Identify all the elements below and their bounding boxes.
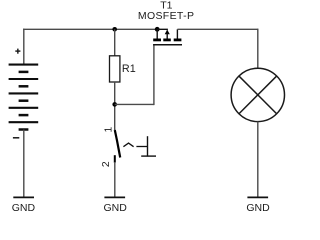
svg-text:GND: GND bbox=[246, 202, 270, 213]
wire R1 bottom to switch bbox=[114, 82, 116, 130]
lamp LP1 bbox=[231, 68, 284, 121]
svg-text:MOSFET-P: MOSFET-P bbox=[138, 10, 194, 22]
battery - sign bbox=[13, 137, 19, 139]
svg-text:R1: R1 bbox=[122, 63, 136, 75]
actuator base bar bbox=[141, 155, 156, 157]
wire to R1 top bbox=[114, 29, 116, 56]
wire top bus (battery to MOSFET source) bbox=[23, 28, 157, 30]
wire gate horizontal bbox=[115, 103, 154, 105]
battery B1 bbox=[9, 65, 39, 130]
drain leg bbox=[176, 29, 178, 38]
bulk arrow (points up) bbox=[165, 30, 170, 35]
node gate junction dot bbox=[112, 102, 117, 107]
ground left bbox=[13, 196, 34, 198]
switch blade bbox=[115, 130, 120, 158]
source junction dot bbox=[155, 27, 160, 32]
resistor R1 bbox=[110, 56, 120, 82]
wire lamp to GND bbox=[257, 121, 259, 197]
bulk wire bbox=[157, 28, 167, 31]
ground middle bbox=[104, 196, 125, 198]
svg-text:1: 1 bbox=[104, 126, 115, 132]
ground right bbox=[247, 196, 268, 198]
actuator dash bbox=[136, 146, 147, 148]
gate bar bbox=[153, 44, 182, 46]
channel bar 2 bbox=[163, 39, 171, 42]
svg-text:2: 2 bbox=[101, 161, 112, 167]
svg-text:GND: GND bbox=[12, 202, 36, 213]
wire gate vertical bbox=[153, 44, 155, 105]
node top junction dot bbox=[112, 27, 117, 32]
channel bar 3 bbox=[174, 39, 182, 42]
pin 2 stub bbox=[114, 155, 116, 162]
wire battery to GND bbox=[23, 130, 25, 198]
wire right vertical to lamp bbox=[257, 29, 259, 69]
source leg bbox=[156, 29, 158, 38]
bulk stem bbox=[166, 34, 168, 39]
actuator caret bbox=[123, 143, 133, 147]
channel bar 1 bbox=[153, 39, 161, 42]
wire top right (drain to lamp) bbox=[177, 28, 257, 30]
actuator stem bbox=[147, 136, 149, 156]
wire left vertical (battery +) bbox=[23, 29, 25, 65]
battery + sign bbox=[15, 49, 20, 54]
wire switch to GND bbox=[114, 162, 116, 197]
svg-text:GND: GND bbox=[104, 202, 128, 213]
transistor T1 (P-MOSFET) bbox=[138, 0, 194, 45]
switch S1 bbox=[101, 126, 156, 167]
